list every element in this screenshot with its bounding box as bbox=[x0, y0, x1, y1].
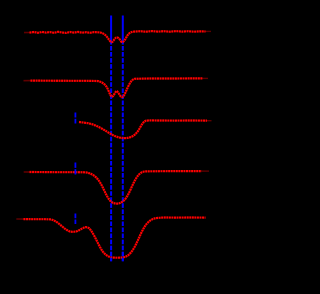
spectrum row 3 faint tail bbox=[207, 120, 212, 122]
component marker line left (dashed lower segment) bbox=[110, 46, 112, 261]
spectrum row 4 faint tail bbox=[202, 170, 210, 172]
spectrum row 4 faint lead-in bbox=[24, 171, 30, 173]
spectrum row 2 faint lead-in bbox=[24, 80, 32, 82]
spectrum row 5 faint lead-in bbox=[16, 218, 24, 220]
marker line left bottom dashes over curve bbox=[110, 252, 112, 262]
velocity tick row 5 bbox=[74, 214, 76, 225]
component marker line left (solid top segment) bbox=[110, 16, 112, 45]
spectrum row 3 dotted curve bbox=[79, 120, 207, 138]
component marker line right (solid top segment) bbox=[122, 16, 124, 45]
velocity tick row 3 bbox=[74, 113, 76, 124]
spectrum row 1 dotted curve bbox=[30, 31, 206, 42]
spectrum row 5 dotted curve bbox=[24, 218, 206, 258]
spectrum row 2 dotted curve bbox=[31, 78, 203, 97]
component marker line right (dashed lower segment) bbox=[122, 46, 124, 261]
spectrum row 2 faint tail bbox=[203, 77, 209, 79]
velocity tick row 4 bbox=[74, 163, 76, 175]
spectrum row 1 faint tail bbox=[206, 30, 212, 32]
spectrum row 4 dotted curve bbox=[30, 171, 202, 204]
marker line right bottom dashes over curve bbox=[122, 252, 124, 262]
spectrum row 1 faint lead-in bbox=[24, 32, 30, 34]
